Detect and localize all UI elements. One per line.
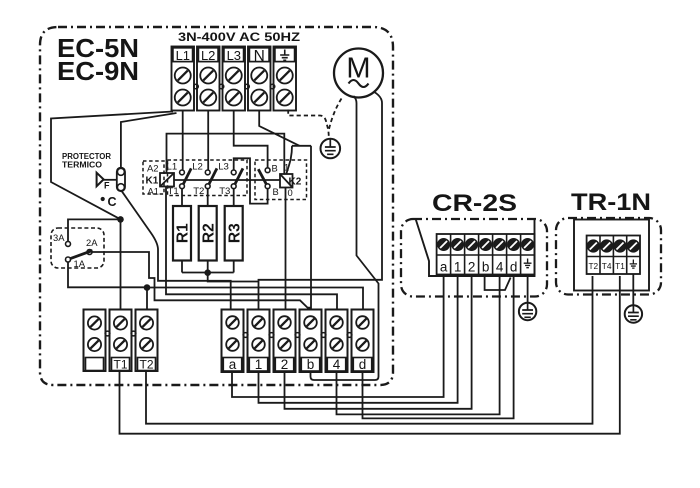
svg-text:TERMICO: TERMICO	[62, 161, 102, 170]
thermal protector trip flag F	[97, 173, 104, 187]
terminal X1:L1	[172, 47, 195, 111]
wire TR-1N earth to ground	[632, 274, 634, 306]
terminal X1:N	[248, 47, 271, 111]
contact L3/T3 of K1	[231, 170, 236, 175]
terminal X1:L3	[223, 47, 246, 111]
wire CR-2S b jog	[485, 275, 511, 291]
svg-text:2: 2	[281, 357, 289, 372]
node star point	[204, 269, 211, 276]
wire L3 contact top hop to contact B bottom	[234, 158, 268, 203]
svg-text:a: a	[440, 260, 448, 275]
svg-text:R1: R1	[175, 223, 192, 243]
CR-2S terminal b	[480, 239, 491, 250]
svg-text:T2: T2	[588, 261, 598, 271]
svg-text:B: B	[273, 186, 279, 197]
TR-1N terminal strip	[587, 236, 640, 275]
CR-2S mounting plate	[416, 220, 535, 277]
svg-text:T2: T2	[139, 358, 153, 372]
contact L2/T2 of K1	[205, 170, 210, 175]
svg-text:L3: L3	[227, 48, 241, 63]
wire 2A to terminal b (lower bus)	[92, 252, 311, 308]
resistor R3	[225, 206, 243, 261]
TR-1N terminal T1	[614, 240, 625, 251]
svg-text:M: M	[346, 53, 370, 85]
wire node J1 to selector 3A	[68, 219, 121, 241]
wire L1 to contactor	[182, 111, 184, 170]
terminal X3:b	[300, 310, 322, 373]
wire capsule top to L1	[121, 113, 177, 168]
node J1 junction	[117, 216, 124, 223]
svg-text:2: 2	[468, 260, 476, 275]
wire a to CR-2S a	[232, 276, 444, 397]
CR-2S terminal strip	[437, 234, 535, 275]
svg-text:a: a	[229, 357, 237, 372]
svg-text:d: d	[359, 357, 367, 372]
wire CR-2S earth to ground	[527, 275, 529, 303]
svg-text:0: 0	[288, 187, 293, 198]
terminal X3:a	[222, 310, 244, 373]
TR-1N dash-dot box	[556, 218, 661, 295]
wire capsule bottom to terminal a	[122, 191, 231, 310]
wire T1 to TR-1N T1	[120, 276, 620, 434]
wire A2 to K2 coil top	[167, 134, 285, 174]
wire L1 to node J1 (via left side)	[51, 112, 173, 220]
wire 2 to CR-2S 2	[285, 276, 472, 409]
svg-text:1: 1	[255, 357, 263, 372]
TR-1N terminal T2	[588, 240, 599, 251]
wire L3 to contact B top	[234, 111, 268, 168]
terminal X1:PE	[274, 47, 297, 111]
TR-1N mounting plate	[574, 220, 649, 291]
enclosure: main unit dash-dot border	[40, 27, 393, 385]
wire 1 to CR-2S 1	[259, 276, 458, 403]
wire: motor earth (dashed) to ground	[329, 99, 342, 131]
wire: motor phase V (right) to terminal 1	[259, 92, 383, 311]
svg-text:T1: T1	[615, 261, 625, 271]
svg-text:L2: L2	[192, 162, 203, 173]
selector 3A terminal	[66, 241, 71, 246]
svg-text:CR-2S: CR-2S	[432, 190, 517, 217]
contact B of K2	[265, 168, 270, 173]
wire T2 to TR-1N T2	[146, 276, 593, 424]
TR-1N terminal PE	[628, 240, 639, 251]
terminal X3:d	[352, 310, 374, 373]
wire N to K2 area	[259, 111, 299, 146]
svg-text:2A: 2A	[86, 237, 98, 248]
svg-text:B: B	[272, 163, 278, 174]
wire K2 coil bottom to terminal 2	[285, 188, 287, 311]
svg-text:R3: R3	[226, 223, 243, 243]
svg-text:4: 4	[333, 357, 341, 372]
CR-2S terminal 2	[466, 239, 477, 250]
svg-text:EC-9N: EC-9N	[57, 56, 139, 86]
svg-text:T3: T3	[219, 186, 230, 197]
terminal X2:blank	[84, 310, 106, 372]
terminal X2:T2	[136, 310, 158, 372]
CR-2S terminal d	[508, 239, 519, 250]
wire: resistor star point to terminal 1 junction	[208, 273, 259, 282]
wire: motor phase U (left) wrap-around to terminal b bottom	[311, 96, 379, 380]
svg-text:L2: L2	[201, 48, 215, 63]
ground symbol CR-2S	[519, 303, 536, 320]
svg-text:T1: T1	[168, 186, 179, 197]
wire to terminal b	[310, 146, 312, 310]
svg-text:b: b	[307, 357, 315, 372]
resistor R1	[173, 206, 191, 261]
svg-text:L1: L1	[176, 48, 190, 63]
label point C	[101, 197, 105, 201]
wire T2 to R2	[207, 189, 209, 206]
svg-text:K2: K2	[289, 177, 302, 188]
relay K2 coil	[280, 174, 293, 188]
svg-text:3A: 3A	[53, 232, 65, 243]
svg-text:T1: T1	[113, 358, 127, 372]
svg-text:C: C	[108, 195, 117, 209]
resistor R2	[199, 206, 217, 261]
wire node J2 to terminal d	[147, 288, 363, 311]
terminal X3:2	[274, 310, 296, 373]
resistor common bus	[182, 272, 234, 274]
selector 1A terminal	[66, 257, 71, 262]
contactor K1 coil	[160, 173, 174, 187]
wire K2 coil top hook	[287, 146, 293, 174]
relay K2 dashed box	[255, 160, 307, 200]
svg-text:L3: L3	[218, 162, 229, 173]
wire node above K2	[292, 145, 311, 147]
wire node J2 down to terminal T2	[146, 288, 148, 311]
svg-text:T2: T2	[193, 186, 204, 197]
terminal X3:4	[326, 310, 348, 373]
contactor linkage bar	[174, 179, 280, 181]
svg-text:1: 1	[454, 260, 462, 275]
wire 4 to CR-2S 4	[337, 276, 500, 414]
svg-text:3N-400V AC 50HZ: 3N-400V AC 50HZ	[178, 32, 300, 44]
svg-text:b: b	[482, 260, 490, 275]
wire A1 to terminal 4	[166, 187, 337, 311]
CR-2S terminal 4	[494, 239, 505, 250]
TR-1N terminal T4	[601, 240, 612, 251]
svg-text:TR-1N: TR-1N	[571, 189, 651, 216]
wire T1 to R1	[181, 189, 183, 206]
svg-text:A1: A1	[148, 186, 159, 197]
selector 2A terminal	[87, 250, 92, 255]
svg-text:1A: 1A	[74, 258, 86, 269]
wire 1A to node J2	[68, 262, 144, 287]
svg-text:d: d	[510, 260, 518, 275]
wire d to CR-2S d	[363, 276, 514, 418]
svg-text:R2: R2	[200, 223, 217, 243]
CR-2S terminal a	[438, 239, 449, 250]
thermal protector capsule	[117, 168, 125, 192]
terminal X2:T1	[110, 310, 132, 372]
ground symbol TR-1N	[625, 305, 642, 322]
contactor K1 contacts dashed box	[168, 160, 248, 196]
node J2 junction	[144, 284, 151, 291]
svg-text:A2: A2	[147, 163, 158, 174]
svg-text:L1: L1	[167, 162, 178, 173]
selector switch 1A/2A/3A dashed box	[51, 228, 104, 268]
motor M ~	[334, 49, 383, 98]
wire T3 to R3	[233, 189, 235, 206]
wire L2 to contactor	[207, 111, 209, 170]
terminal X3:1	[248, 310, 270, 373]
bridge holes between top terminals	[194, 84, 199, 89]
ground symbol near motor	[321, 139, 341, 159]
wire: PE terminal (dashed) to ground	[288, 110, 329, 139]
svg-text:T4: T4	[602, 261, 612, 271]
svg-text:F: F	[104, 181, 110, 191]
svg-text:N: N	[254, 48, 265, 65]
wire node J1 down to terminal T1	[120, 219, 122, 310]
CR-2S terminal 1	[452, 239, 463, 250]
CR-2S dash-dot box	[401, 219, 547, 297]
selector lever	[70, 251, 93, 259]
svg-text:4: 4	[496, 260, 504, 275]
terminal X1:L2	[197, 47, 220, 111]
CR-2S terminal PE	[522, 239, 533, 250]
contact L1/T1 of K1	[180, 170, 185, 175]
contactor K1 coil dashed box	[143, 161, 164, 194]
